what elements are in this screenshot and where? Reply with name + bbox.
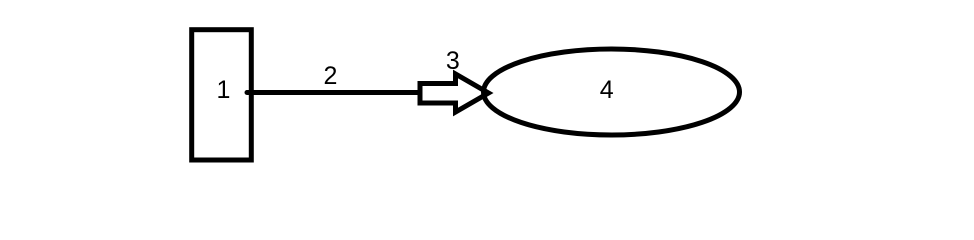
wire 2 — [247, 90, 419, 95]
rectangle node 1 — [192, 30, 252, 160]
svg-text:2: 2 — [324, 62, 338, 90]
svg-text:3: 3 — [446, 47, 460, 75]
block arrow 3 — [420, 74, 489, 112]
ellipse node 4 — [484, 49, 740, 135]
svg-text:4: 4 — [600, 76, 614, 104]
svg-text:1: 1 — [217, 76, 231, 104]
